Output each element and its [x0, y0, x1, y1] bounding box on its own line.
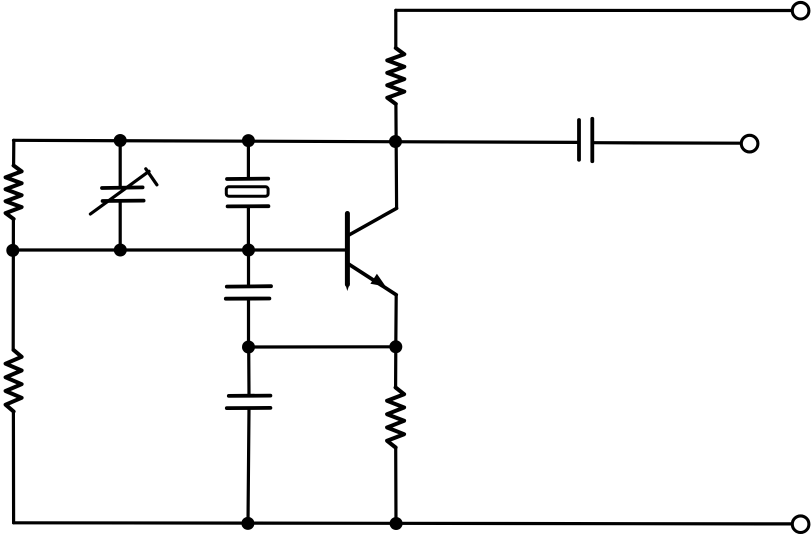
crystal Y1 top plate [227, 177, 268, 181]
wire trimmer top stub [119, 140, 122, 186]
wire collector vertical [394, 104, 398, 208]
resistor R1 (upper left bias) [6, 166, 22, 220]
trimmer capacitor C1 adjustment arrow [90, 171, 149, 214]
transistor Q1 collector lead [349, 208, 397, 235]
wire C3 top stub [247, 347, 251, 395]
wire trimmer bottom stub [119, 203, 122, 250]
node trimmer bottom junction [114, 244, 127, 257]
wire bottom rail (ground) [14, 523, 793, 524]
wire collector row right segment to output [594, 141, 742, 145]
trimmer capacitor C1 top plate [102, 185, 143, 189]
trimmer capacitor C1 bottom plate [103, 199, 144, 203]
wire C3 bottom stub [248, 408, 249, 523]
node ground R4 junction [390, 517, 403, 530]
node C2-C3 junction [242, 341, 255, 354]
terminal T1 top right [792, 2, 809, 19]
wire emitter row (y=347) [249, 345, 396, 348]
terminal T2 output mid right [741, 135, 758, 152]
resistor R2 (lower left bias) [6, 350, 22, 412]
wire R4 bottom stub [394, 448, 397, 524]
wire emitter vertical [394, 295, 398, 347]
node crystal top junction [242, 134, 255, 147]
node left bias junction [6, 244, 19, 257]
capacitor C2 (feedback) top plate [227, 284, 271, 288]
capacitor C4 (output coupling) left plate [577, 120, 581, 160]
wire top rail (V+ to output terminal) [396, 9, 792, 12]
resistor R3 (collector load) [387, 48, 404, 104]
terminal T3 bottom right [792, 516, 809, 533]
transistor Q1 base bar [345, 214, 350, 292]
node ground C3 junction [241, 517, 254, 530]
wire crystal top stub [247, 140, 250, 178]
capacitor C4 right plate [590, 119, 594, 161]
crystal Y1 bottom plate [228, 204, 269, 208]
wire left vertical top stub [12, 140, 15, 165]
node trimmer top junction [114, 134, 127, 147]
wire crystal bottom stub [247, 207, 250, 250]
wire C2 top stub [247, 250, 250, 286]
crystal Y1 body rectangle [226, 187, 268, 196]
wire left vertical middle [12, 219, 15, 350]
wire base row (y=250) [13, 248, 346, 251]
wire R4 top stub [394, 347, 397, 388]
capacitor C3 bottom plate [227, 406, 271, 410]
node emitter junction [389, 340, 402, 353]
capacitor C3 (feedback) top plate [229, 394, 271, 398]
capacitor C2 bottom plate [226, 297, 270, 301]
transistor Q1 emitter lead with arrow [349, 264, 396, 295]
wire collector row left segment (y=141) [14, 140, 578, 142]
node crystal bottom junction [242, 244, 255, 257]
trimmer capacitor C1 arrow tee bar [146, 169, 157, 185]
resistor R4 (emitter) [387, 388, 404, 448]
wire left vertical bottom [12, 412, 15, 523]
node collector junction [389, 135, 402, 148]
wire C2 bottom stub [247, 299, 250, 347]
wire R3 top stub [394, 10, 397, 48]
